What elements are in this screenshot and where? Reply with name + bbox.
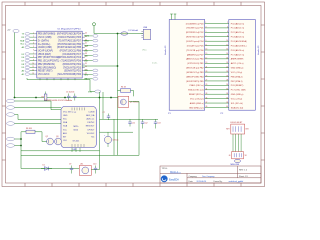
svg-text:C10: C10 bbox=[93, 164, 96, 166]
svg-text:Company:: Company: bbox=[189, 176, 198, 178]
svg-text:PC6 (RESET): PC6 (RESET) bbox=[231, 85, 244, 87]
svg-text:2013-06-24: 2013-06-24 bbox=[197, 181, 207, 183]
sheet border outer frame bbox=[2, 2, 265, 187]
svg-text:U1 Mega32U4 TQFP44: U1 Mega32U4 TQFP44 bbox=[58, 28, 82, 30]
capacitor C11 bbox=[128, 119, 135, 126]
svg-text:(PCINT13/OC1) PB6: (PCINT13/OC1) PB6 bbox=[60, 51, 82, 53]
connector P2 pin numbers bbox=[226, 22, 228, 108]
title block sheet name link bbox=[170, 170, 181, 173]
U1 left pin stubs and pin numbers bbox=[32, 33, 36, 75]
svg-text:(MOSI/OC2 p) PB3: (MOSI/OC2 p) PB3 bbox=[186, 72, 204, 74]
wire port3 to module bbox=[15, 115, 62, 120]
module U3 top pin marks bbox=[72, 108, 85, 114]
J4 bottom ellipse bbox=[231, 159, 241, 166]
left vertical wire rail bbox=[14, 33, 16, 98]
wire port1 to module bbox=[15, 101, 62, 110]
svg-text:3V3: 3V3 bbox=[245, 129, 248, 131]
svg-text:(TXD/INT1 pc) PD1: (TXD/INT1 pc) PD1 bbox=[186, 28, 204, 30]
sheet border tick marks bbox=[2, 2, 265, 187]
transistor Q2 bbox=[46, 136, 54, 145]
U1 bottom pin stubs bbox=[40, 78, 75, 80]
net flag VCC near caps bbox=[88, 90, 101, 93]
svg-text:D6: D6 bbox=[22, 57, 24, 59]
svg-text:U4 HC-06 BT: U4 HC-06 BT bbox=[230, 122, 243, 124]
svg-text:REGOUT: REGOUT bbox=[86, 126, 95, 128]
svg-text:TITLE:: TITLE: bbox=[162, 168, 168, 170]
buzzer LS1 red box bbox=[79, 164, 91, 176]
wire loop below U1 bbox=[27, 78, 90, 92]
svg-text:CLKIN: CLKIN bbox=[88, 111, 94, 113]
svg-text:(RXD1/INT2) PD2: (RXD1/INT2) PD2 bbox=[63, 64, 82, 66]
svg-text:VCC (+5V p): VCC (+5V p) bbox=[231, 98, 243, 100]
module U3 bottom pin marks bbox=[72, 144, 84, 147]
title block company row bbox=[189, 175, 215, 178]
svg-text:D9: D9 bbox=[22, 67, 24, 69]
svg-text:LS1: LS1 bbox=[80, 164, 83, 166]
junction on +5V rail bbox=[117, 33, 119, 35]
svg-text:R4 1K: R4 1K bbox=[121, 87, 127, 89]
connector P2 pin name labels bbox=[231, 22, 247, 109]
module U3 rounded outline bbox=[61, 107, 96, 148]
bluetooth header U4 red box bbox=[231, 124, 245, 134]
junction x21 b bbox=[20, 145, 22, 147]
svg-text:C6: C6 bbox=[72, 92, 74, 94]
wire port2 to module bbox=[15, 107, 62, 109]
svg-text:PB1 (SCLK/PCINT1): PB1 (SCLK/PCINT1) bbox=[38, 61, 60, 63]
svg-text:C12: C12 bbox=[144, 123, 147, 125]
svg-text:R3: R3 bbox=[41, 97, 43, 99]
svg-text:C8 10u: C8 10u bbox=[113, 140, 119, 142]
svg-text:D13: D13 bbox=[84, 70, 87, 72]
svg-text:C9: C9 bbox=[69, 164, 71, 166]
capacitor C5 bbox=[66, 92, 72, 101]
svg-text:GY-521: GY-521 bbox=[73, 141, 81, 143]
bottom horizontal rail 1 bbox=[21, 150, 100, 152]
wire R6 to Q2 bbox=[41, 132, 43, 142]
svg-text:GND (GND p): GND (GND p) bbox=[231, 94, 244, 96]
EasyEDA logo bbox=[161, 176, 179, 182]
svg-text:GND: GND bbox=[63, 115, 68, 117]
svg-text:CLK: CLK bbox=[63, 140, 68, 142]
svg-text:(INT3/TXD1 d) PD3: (INT3/TXD1 d) PD3 bbox=[186, 37, 204, 39]
junction left rail bottom bbox=[14, 97, 16, 99]
wire +5V to fuse bbox=[94, 33, 121, 35]
junction at D+ node bbox=[117, 65, 119, 67]
svg-text:D10: D10 bbox=[84, 50, 87, 52]
module U3 center text bbox=[73, 126, 81, 143]
svg-text:VCC (+5V p): VCC (+5V p) bbox=[231, 72, 243, 74]
U1 left side net name flags bbox=[20, 33, 34, 76]
U1 left pin names bbox=[38, 33, 60, 76]
svg-text:D1: D1 bbox=[43, 165, 45, 167]
svg-text:undefined_gpdfaf: undefined_gpdfaf bbox=[229, 181, 244, 183]
svg-text:GND (GND p): GND (GND p) bbox=[231, 68, 244, 70]
module U3 left pin names bbox=[63, 111, 72, 142]
svg-text:D11: D11 bbox=[84, 55, 87, 57]
vertical wire x21 bbox=[20, 132, 22, 169]
module bottom stubs wires bbox=[72, 148, 80, 152]
svg-text:Q3: Q3 bbox=[56, 136, 58, 138]
wires U4 to J4 bbox=[233, 134, 241, 152]
svg-text:UVcc: UVcc bbox=[142, 50, 147, 52]
long vertical wire to power section bbox=[117, 66, 119, 155]
svg-text:D12: D12 bbox=[84, 60, 87, 62]
svg-text:MPU-: MPU- bbox=[74, 126, 79, 128]
resistor R4 horizontal bbox=[118, 87, 134, 97]
svg-text:(TXD1/INT3) PD3: (TXD1/INT3) PD3 bbox=[63, 67, 82, 69]
svg-text:D+/D-: D+/D- bbox=[152, 63, 158, 65]
svg-text:C11: C11 bbox=[132, 123, 135, 125]
svg-text:VLOGIC: VLOGIC bbox=[87, 133, 95, 135]
power flag +5V above U1 bbox=[93, 23, 96, 34]
capacitor C12 bbox=[141, 119, 148, 128]
junction rail 1 bbox=[35, 97, 37, 99]
bottom wire y169 right bbox=[91, 169, 99, 171]
U1 right pin stubs and pin numbers bbox=[82, 33, 87, 75]
junction rail 2 bbox=[64, 97, 66, 99]
capacitor C7 bbox=[103, 112, 111, 120]
svg-text:(ICP3/CLK0/OC4) PC6: (ICP3/CLK0/OC4) PC6 bbox=[58, 57, 82, 59]
svg-text:REV: 1.0: REV: 1.0 bbox=[239, 170, 248, 172]
net flag +5V top-left bbox=[7, 29, 19, 32]
junction rail 4 bbox=[110, 97, 112, 99]
svg-text:Header 20: Header 20 bbox=[258, 45, 260, 55]
svg-text:C7: C7 bbox=[103, 112, 105, 114]
junction x21 a bbox=[20, 138, 22, 140]
capacitor C13 bbox=[154, 119, 161, 128]
transistor Q3 bbox=[55, 136, 62, 145]
capacitor C6 bbox=[72, 92, 77, 101]
svg-text:R6 10K: R6 10K bbox=[26, 128, 33, 130]
svg-text:USB: USB bbox=[143, 27, 148, 29]
svg-text:(OC0B/INT0 a) PD0: (OC0B/INT0 a) PD0 bbox=[186, 23, 205, 25]
junction rail 3 bbox=[99, 97, 101, 99]
svg-text:SCL (I2C clk): SCL (I2C clk) bbox=[231, 103, 243, 105]
U1 right pin names bbox=[57, 33, 82, 76]
svg-text:MOSI: MOSI bbox=[84, 36, 89, 38]
capacitor C9 bbox=[69, 164, 73, 174]
svg-text:D5: D5 bbox=[22, 54, 24, 56]
diode D1 bbox=[41, 165, 52, 171]
wire port5 to bottom rail bbox=[15, 138, 22, 140]
wire Q1 right bbox=[129, 102, 139, 156]
wire fuse to USB connector bbox=[128, 33, 144, 35]
svg-text:(SCK/PCINT5) PB5: (SCK/PCINT5) PB5 bbox=[186, 81, 204, 83]
svg-text:SCL: SCL bbox=[20, 44, 24, 46]
connector pin wires bbox=[205, 24, 229, 108]
vertical wire VBUS down bbox=[117, 34, 119, 67]
horizontal wire y119 bbox=[100, 118, 159, 120]
horizontal wire main rail y97 bbox=[15, 97, 119, 99]
wire to U1 D+ pin bbox=[82, 65, 117, 67]
svg-text:UGND (USB): UGND (USB) bbox=[38, 47, 52, 49]
vertical rail v2 bbox=[102, 92, 104, 119]
svg-text:(INT2/RXD1 d) PD2: (INT2/RXD1 d) PD2 bbox=[186, 32, 205, 34]
svg-text:PB2 (PDI/MOSI): PB2 (PDI/MOSI) bbox=[38, 64, 55, 66]
connector P2 body bbox=[229, 20, 256, 111]
svg-text:C5 104: C5 104 bbox=[66, 92, 72, 94]
svg-text:VCC (+5V pwr): VCC (+5V pwr) bbox=[190, 98, 204, 100]
connector P1 body bbox=[169, 20, 205, 111]
polarized capacitor C8 bbox=[104, 132, 118, 147]
svg-text:C13: C13 bbox=[157, 123, 160, 125]
power pins above connector P1 bbox=[170, 14, 176, 20]
connector P1 pin numbers bbox=[206, 22, 208, 108]
svg-text:RESET (RST in): RESET (RST in) bbox=[189, 94, 204, 96]
svg-text:(MISO/PCINT) PB4: (MISO/PCINT) PB4 bbox=[186, 76, 204, 78]
left net port flags bbox=[7, 99, 15, 147]
sheet border inner frame bbox=[6, 6, 262, 184]
wire port4 to module bbox=[15, 123, 62, 125]
svg-text:Y X Z: Y X Z bbox=[72, 112, 76, 114]
resistor R6 horizontal bbox=[21, 128, 42, 133]
title block outline bbox=[160, 166, 261, 183]
bottom horizontal rail 2 bbox=[21, 154, 139, 156]
svg-text:Q2: Q2 bbox=[46, 136, 48, 138]
svg-text:Header 20: Header 20 bbox=[165, 45, 167, 55]
bottom wire y168 bbox=[21, 168, 79, 170]
svg-text:VCC 3V3: VCC 3V3 bbox=[63, 111, 72, 113]
svg-text:(ICP1/CLKO) PB1: (ICP1/CLKO) PB1 bbox=[187, 63, 204, 65]
svg-text:FSYNC: FSYNC bbox=[88, 122, 95, 124]
transistor Q1 red box bbox=[118, 96, 140, 107]
title block date row bbox=[189, 180, 244, 183]
horizontal wire y132 bbox=[100, 131, 134, 133]
capacitor C10 bbox=[93, 164, 97, 174]
connector P1 pin name labels bbox=[186, 23, 205, 109]
svg-text:PC7 (OSC 16M): PC7 (OSC 16M) bbox=[231, 90, 246, 92]
svg-text:RESET (RST): RESET (RST) bbox=[38, 71, 53, 73]
USB connector J1 bbox=[141, 27, 150, 39]
module U3 right pin names bbox=[86, 111, 95, 138]
svg-text:VBUS (DET): VBUS (DET) bbox=[38, 54, 51, 56]
svg-text:J4: J4 bbox=[229, 155, 231, 157]
svg-text:(SCL/INT0/OC0B) PD0: (SCL/INT0/OC0B) PD0 bbox=[57, 74, 81, 76]
svg-text:RXL: RXL bbox=[84, 74, 88, 76]
svg-text:D8: D8 bbox=[22, 64, 24, 66]
microcontroller U1 MEGA32U4 bbox=[37, 28, 82, 78]
svg-text:MISO: MISO bbox=[84, 40, 89, 42]
svg-text:GND (GND pwr): GND (GND pwr) bbox=[189, 107, 204, 109]
svg-text:D7: D7 bbox=[22, 61, 24, 63]
svg-text:(SS/OC1B pci) PB2: (SS/OC1B pci) PB2 bbox=[186, 68, 204, 70]
wire port6 elbow bbox=[15, 145, 22, 147]
svg-text:PB3 (PDO/MISO): PB3 (PDO/MISO) bbox=[38, 67, 56, 69]
connector J4 red box bbox=[232, 152, 244, 159]
U1 right side wires and net flags bbox=[84, 35, 98, 81]
fuse F1 bbox=[121, 29, 139, 35]
svg-text:UVCC (USB): UVCC (USB) bbox=[38, 37, 52, 39]
svg-text:(T1/OC1B pci) PD6: (T1/OC1B pci) PD6 bbox=[186, 50, 204, 52]
svg-text:CPOUT: CPOUT bbox=[87, 129, 95, 131]
vertical rail v1 bbox=[99, 92, 101, 170]
resistor R3 vertical bbox=[41, 92, 46, 101]
svg-text:Q1 S8550: Q1 S8550 bbox=[130, 102, 140, 104]
vertical rail v4 bbox=[113, 119, 115, 155]
